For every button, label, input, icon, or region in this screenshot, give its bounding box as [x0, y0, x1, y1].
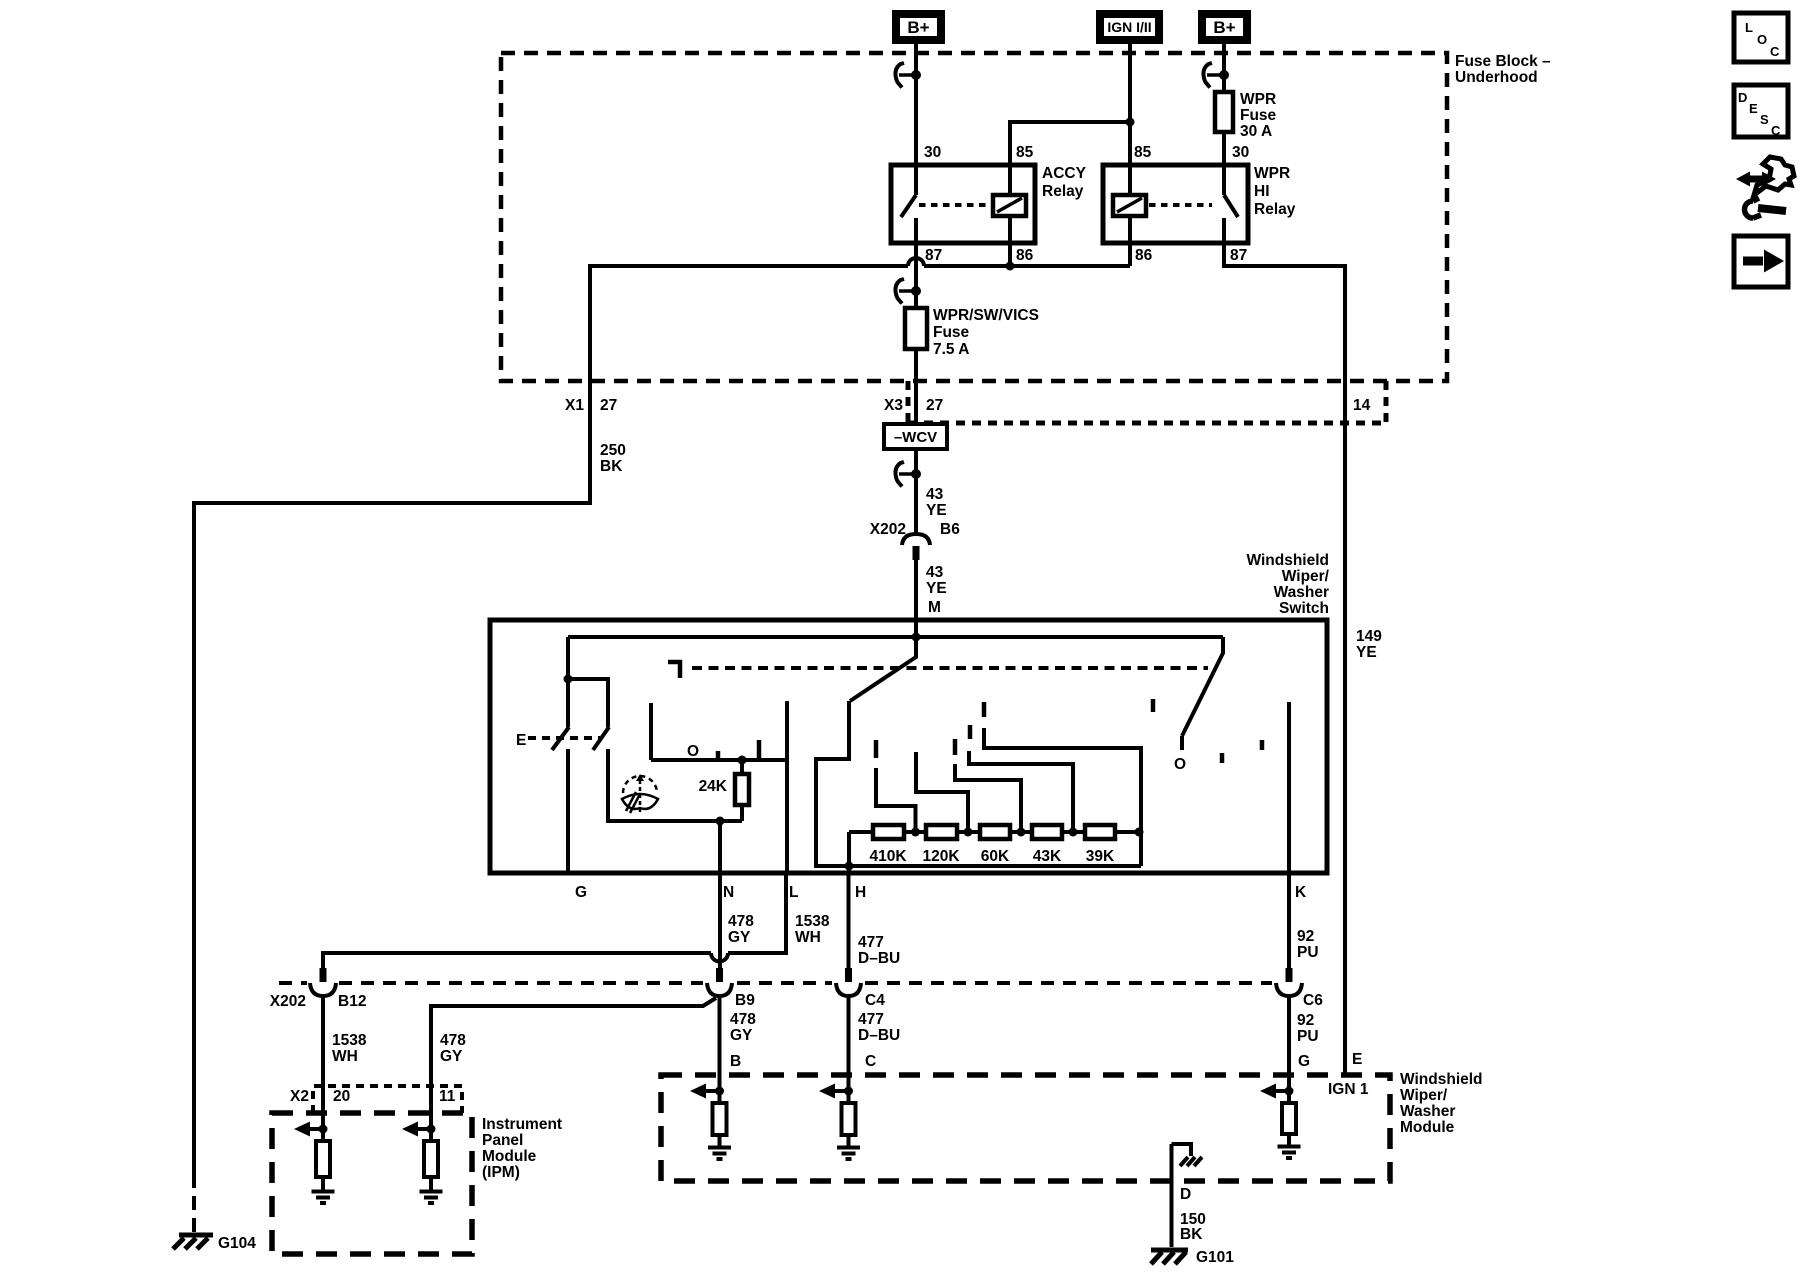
svg-text:WPR/SW/VICS: WPR/SW/VICS: [933, 307, 1039, 324]
washer switch blade 2: [593, 727, 609, 750]
svg-text:92: 92: [1297, 1012, 1314, 1029]
svg-text:O: O: [1757, 32, 1767, 47]
svg-text:1538: 1538: [795, 913, 830, 930]
svg-text:GY: GY: [730, 1027, 753, 1044]
wire fuse to X3 27 and WCV: [914, 349, 918, 424]
ground bus wire 250 BK with hop over ACCY 87 wire: [194, 258, 1130, 1174]
svg-text:D: D: [1738, 90, 1747, 105]
svg-text:B+: B+: [907, 18, 929, 37]
resistor IPM 20: [316, 1141, 330, 1177]
svg-text:Washer: Washer: [1400, 1103, 1455, 1120]
step wire 4: [969, 751, 1073, 832]
svg-text:YE: YE: [926, 580, 947, 597]
dashed tail of 250 BK to G104: [192, 1174, 196, 1233]
contact dash right b: [1220, 753, 1225, 763]
ground symbol module B: [708, 1135, 731, 1159]
wiper HI blade from feed wire: [1182, 637, 1223, 750]
svg-text:Fuse: Fuse: [933, 324, 970, 341]
instrument panel module dashed box: [272, 1113, 472, 1254]
fuse WPR 30A: [1215, 92, 1233, 132]
svg-text:Windshield: Windshield: [1246, 552, 1329, 569]
svg-text:11: 11: [439, 1088, 456, 1105]
svg-text:87: 87: [1230, 247, 1247, 264]
svg-text:D: D: [1180, 1186, 1191, 1203]
wire ACCY 87 down through fuse: [914, 218, 918, 308]
washer switch blade 1: [552, 727, 569, 750]
svg-text:X2: X2: [290, 1088, 309, 1105]
mechanical dashed line E: [528, 736, 600, 740]
node washer branch junction: [564, 675, 573, 684]
connector B12 female half: [310, 983, 336, 996]
arrow IPM 20: [308, 1127, 323, 1131]
node IGN branch junction: [1126, 118, 1135, 127]
svg-text:Fuse: Fuse: [1240, 107, 1277, 124]
svg-text:E: E: [516, 732, 526, 749]
svg-text:Wiper/: Wiper/: [1400, 1087, 1448, 1104]
svg-text:86: 86: [1135, 247, 1153, 264]
arrow module C: [833, 1089, 849, 1093]
svg-text:ACCY: ACCY: [1042, 165, 1087, 182]
svg-text:Switch: Switch: [1279, 600, 1329, 617]
mechanical linkage dashed line: [692, 666, 1208, 670]
svg-text:GY: GY: [440, 1048, 463, 1065]
ground symbol IPM 20: [312, 1177, 335, 1203]
svg-text:–WCV: –WCV: [894, 429, 937, 446]
wire WPR HI 86 down to ground bus: [1128, 216, 1132, 266]
svg-text:N: N: [723, 884, 734, 901]
fuse WPR/SW/VICS 7.5A: [905, 308, 927, 349]
svg-text:B6: B6: [940, 521, 960, 538]
node IPM 11: [427, 1125, 436, 1134]
WPR HI relay actuating dashed link: [1149, 203, 1212, 207]
svg-text:120K: 120K: [922, 848, 960, 865]
svg-text:Instrument: Instrument: [482, 1116, 562, 1133]
connector B12 male blade: [320, 968, 327, 982]
power feed box IGN I/II: [1100, 14, 1159, 40]
resistor 410K: [873, 825, 904, 839]
connector C4 female half: [836, 983, 861, 996]
svg-text:C: C: [1771, 123, 1781, 138]
step wire 1: [876, 768, 916, 832]
node module B: [715, 1087, 724, 1096]
wire N down to X202 B9: [718, 873, 722, 968]
resistor module C: [842, 1103, 856, 1135]
svg-text:Washer: Washer: [1274, 584, 1329, 601]
svg-text:60K: 60K: [981, 848, 1010, 865]
connector C4 male blade: [845, 968, 852, 982]
svg-text:24K: 24K: [699, 778, 728, 795]
washer branch wire with blade break: [568, 679, 742, 821]
ground symbol IPM 11: [420, 1177, 443, 1203]
svg-text:Panel: Panel: [482, 1132, 523, 1149]
relay box WPR HI: [1103, 165, 1248, 243]
node chain tap 1: [911, 828, 920, 837]
svg-text:478: 478: [730, 1011, 756, 1028]
svg-text:O: O: [687, 743, 699, 760]
wiper washer module dashed box: [661, 1075, 1390, 1181]
ground G104 rake: [173, 1235, 213, 1249]
svg-text:39K: 39K: [1086, 848, 1115, 865]
svg-text:D–BU: D–BU: [858, 1027, 900, 1044]
svg-text:G101: G101: [1196, 1249, 1234, 1266]
arrow module B: [704, 1089, 720, 1093]
svg-text:C6: C6: [1303, 992, 1323, 1009]
wire WPR HI 87 down and right to module E: [1224, 218, 1345, 1075]
connector B9 female half: [707, 983, 732, 996]
svg-text:X1: X1: [565, 397, 584, 414]
fuse block underhood dashed border: [501, 53, 1447, 381]
relay box ACCY: [891, 165, 1035, 243]
svg-text:43: 43: [926, 564, 944, 581]
wire WCV down to X202 B6: [914, 449, 918, 533]
svg-text:C: C: [865, 1053, 876, 1070]
wire ACCY 86 down to ground bus: [1008, 216, 1012, 266]
svg-text:X202: X202: [270, 993, 306, 1010]
wire B12 to IPM 20: [321, 996, 325, 1141]
contact dash right c: [1260, 740, 1265, 750]
connector X202 dotted line: [279, 981, 1272, 985]
svg-text:C4: C4: [865, 992, 885, 1009]
svg-text:1538: 1538: [332, 1032, 367, 1049]
switch inner feed wire from M: [568, 635, 1223, 639]
svg-text:YE: YE: [1356, 644, 1377, 661]
wire H down to X202 C4: [847, 873, 851, 968]
svg-text:43: 43: [926, 486, 944, 503]
svg-text:(IPM): (IPM): [482, 1164, 520, 1181]
node N tap on washer wire: [716, 817, 725, 826]
device box WCV: [884, 424, 947, 449]
wire K down to X202 C6: [1287, 873, 1291, 968]
svg-text:30: 30: [924, 144, 941, 161]
ground symbol module C: [837, 1135, 860, 1159]
svg-text:86: 86: [1016, 247, 1034, 264]
svg-text:Relay: Relay: [1042, 183, 1084, 200]
connector X2 dotted extent: [313, 1086, 462, 1113]
wire branch B9 to IPM 11: [431, 998, 716, 1141]
wire IGN I/II down: [1128, 44, 1132, 195]
svg-text:WH: WH: [795, 929, 821, 946]
connector X202 B6 female half: [902, 534, 930, 545]
svg-text:B12: B12: [338, 993, 366, 1010]
node module K: [1285, 1087, 1294, 1096]
svg-text:477: 477: [858, 934, 884, 951]
node chain tap 2: [964, 828, 973, 837]
power feed box B+ right: [1202, 14, 1247, 40]
svg-text:478: 478: [728, 913, 754, 930]
resistor 24K: [740, 760, 744, 821]
svg-text:27: 27: [600, 397, 617, 414]
svg-text:478: 478: [440, 1032, 466, 1049]
svg-text:H: H: [855, 884, 866, 901]
svg-text:WH: WH: [332, 1048, 358, 1065]
fusible link symbol on B+ left wire: [895, 63, 921, 88]
svg-text:B9: B9: [735, 992, 755, 1009]
node chain tap 3: [1017, 828, 1026, 837]
svg-text:149: 149: [1356, 628, 1382, 645]
step wire 5 and resistor box right edge: [984, 728, 1141, 866]
connector C6 male blade: [1286, 968, 1293, 982]
contact dash 3: [953, 739, 958, 755]
svg-text:Wiper/: Wiper/: [1282, 568, 1330, 585]
svg-text:WPR: WPR: [1254, 165, 1290, 182]
icon box DESC: [1734, 85, 1788, 137]
svg-text:C: C: [1770, 44, 1780, 59]
contact tick small: [716, 751, 721, 760]
wire N exit: [718, 821, 722, 873]
svg-text:L: L: [789, 884, 798, 901]
svg-text:14: 14: [1353, 397, 1371, 414]
svg-text:B+: B+: [1213, 18, 1235, 37]
node ACCY 86 on bus: [1006, 262, 1015, 271]
wire B+ right down: [1222, 44, 1226, 92]
fusible link symbol below WCV: [895, 462, 921, 487]
svg-text:IGN 1: IGN 1: [1328, 1081, 1369, 1098]
wire B+ left down to ACCY relay 30: [914, 44, 918, 195]
washer fixed contact: [649, 703, 653, 760]
svg-text:PU: PU: [1297, 1028, 1319, 1045]
WPR HI relay switch blade: [1224, 195, 1238, 217]
svg-text:Module: Module: [482, 1148, 537, 1165]
wire 43 YE to switch M: [914, 560, 918, 637]
svg-text:PU: PU: [1297, 944, 1319, 961]
svg-text:O: O: [1174, 756, 1186, 773]
svg-text:Module: Module: [1400, 1119, 1455, 1136]
arrow module K: [1274, 1089, 1289, 1093]
node M junction: [912, 633, 921, 642]
svg-text:GY: GY: [728, 929, 751, 946]
contact tick tall: [757, 740, 762, 760]
svg-text:Relay: Relay: [1254, 201, 1296, 218]
svg-text:G: G: [1298, 1053, 1310, 1070]
power feed box B+ left: [896, 14, 941, 40]
connector X3 dotted extent: [908, 381, 1386, 423]
contact dash 1: [874, 740, 879, 758]
wire B9 to module B: [718, 996, 722, 1141]
svg-text:K: K: [1295, 884, 1307, 901]
node 24K top: [738, 756, 747, 765]
svg-text:L: L: [1745, 20, 1753, 35]
svg-text:E: E: [1352, 1051, 1362, 1068]
svg-text:20: 20: [333, 1088, 350, 1105]
svg-text:7.5 A: 7.5 A: [933, 341, 969, 358]
icon box LOC: [1734, 13, 1788, 62]
svg-text:Fuse Block –: Fuse Block –: [1455, 53, 1551, 70]
arrow IPM 11: [416, 1127, 431, 1131]
washer spray icon: [622, 774, 658, 813]
svg-text:410K: 410K: [869, 848, 907, 865]
wire D 150 BK to G101: [1170, 1144, 1174, 1247]
wire fuse to WPR HI relay 30: [1222, 132, 1226, 195]
svg-text:85: 85: [1016, 144, 1034, 161]
connector B9 male blade: [716, 968, 723, 982]
svg-text:Windshield: Windshield: [1400, 1071, 1483, 1088]
fusible link symbol on B+ right wire: [1203, 63, 1229, 88]
ground G101 rake: [1151, 1250, 1188, 1264]
svg-text:43K: 43K: [1033, 848, 1062, 865]
svg-text:BK: BK: [600, 458, 623, 475]
resistor 60K: [980, 825, 1010, 839]
chassis ground stub D inside module: [1172, 1144, 1192, 1156]
svg-text:Underhood: Underhood: [1455, 69, 1538, 86]
icon vehicle with arrows and wrench: [1736, 157, 1794, 218]
svg-text:30: 30: [1232, 144, 1249, 161]
wire L down and left to X202 B12 with hop over N: [323, 873, 786, 968]
node H junction on resistor box bottom: [845, 862, 854, 871]
svg-text:WPR: WPR: [1240, 91, 1276, 108]
svg-text:250: 250: [600, 442, 626, 459]
svg-text:477: 477: [858, 1011, 884, 1028]
svg-text:YE: YE: [926, 502, 947, 519]
contact dash 5: [982, 702, 987, 717]
step wire 2: [916, 752, 968, 832]
step wire 3: [955, 764, 1021, 832]
svg-text:B: B: [730, 1053, 741, 1070]
ACCY relay switch blade: [901, 195, 916, 217]
contact dash 4: [968, 725, 973, 739]
svg-text:BK: BK: [1180, 1226, 1203, 1243]
svg-text:X202: X202: [870, 521, 906, 538]
WPR HI relay coil: [1113, 195, 1146, 216]
wiper/washer switch box: [490, 620, 1327, 873]
svg-text:27: 27: [926, 397, 943, 414]
resistor 120K: [926, 825, 957, 839]
svg-text:E: E: [1749, 101, 1758, 116]
linkage left end ornament: [668, 660, 682, 678]
node chain right end: [1135, 828, 1144, 837]
svg-text:87: 87: [925, 247, 942, 264]
node chain tap 4: [1069, 828, 1078, 837]
wire H exit: [847, 866, 851, 873]
svg-text:HI: HI: [1254, 183, 1270, 200]
node module C: [844, 1087, 853, 1096]
svg-text:X3: X3: [884, 397, 903, 414]
wire C6 to module K input: [1287, 996, 1291, 1141]
svg-text:D–BU: D–BU: [858, 950, 900, 967]
wire C4 to module C: [847, 996, 851, 1141]
chassis ground rake small: [1180, 1157, 1202, 1166]
svg-text:85: 85: [1134, 144, 1152, 161]
svg-text:IGN I/II: IGN I/II: [1107, 19, 1151, 35]
wire K contact vertical: [1287, 702, 1291, 873]
svg-text:M: M: [928, 599, 941, 616]
wire L vertical: [785, 701, 789, 873]
resistor 43K: [1032, 825, 1062, 839]
resistor module B: [713, 1103, 727, 1135]
resistor module K: [1282, 1103, 1296, 1134]
ACCY relay actuating dashed link: [919, 203, 991, 207]
wire blade to H network: [816, 701, 1141, 866]
connector C6 female half: [1276, 983, 1302, 996]
resistor 39K: [1085, 825, 1115, 839]
contact dash right a: [1151, 699, 1156, 712]
wiper switch blade (M): [850, 637, 916, 701]
wire G vertical with washer blade break: [566, 637, 570, 873]
ground symbol module K: [1278, 1134, 1301, 1158]
icon box arrow: [1734, 236, 1788, 287]
svg-text:G: G: [575, 884, 587, 901]
connector X202 B6 male blade: [913, 546, 920, 560]
ACCY relay coil: [993, 195, 1026, 216]
washer contact row: [651, 758, 787, 762]
node IPM 20: [319, 1125, 328, 1134]
resistor IPM 11: [424, 1141, 438, 1177]
svg-text:30 A: 30 A: [1240, 123, 1272, 140]
svg-text:G104: G104: [218, 1235, 256, 1252]
svg-text:92: 92: [1297, 928, 1314, 945]
svg-text:S: S: [1760, 112, 1769, 127]
interval resistor chain line: [849, 832, 1139, 866]
fusible link symbol above WPR/SW/VICS fuse: [895, 279, 921, 304]
wire IGN branch to ACCY relay 85: [1010, 122, 1130, 195]
